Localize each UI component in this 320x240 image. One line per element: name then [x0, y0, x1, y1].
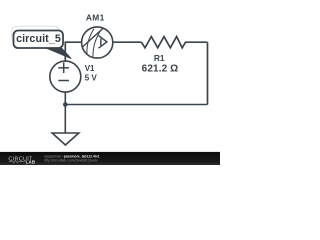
- wire right side down: [207, 42, 209, 104]
- svg-text:5 V: 5 V: [85, 73, 98, 82]
- wire V1 bottom to ground: [64, 92, 66, 133]
- annotation tail: [42, 46, 72, 59]
- annotation circuit_5 bubble: [14, 31, 64, 49]
- svg-text:http://circuitlab.com/c9vw581Q: http://circuitlab.com/c9vw581Qxedv: [44, 158, 98, 162]
- ammeter AM1: [82, 27, 113, 58]
- svg-text:AM1: AM1: [86, 12, 105, 22]
- svg-text:circuit_5: circuit_5: [16, 33, 61, 45]
- svg-text:V1: V1: [85, 64, 95, 73]
- node junction: [63, 102, 68, 107]
- voltage source V1: [50, 61, 81, 92]
- watermark logo LAB: [9, 161, 25, 163]
- wire ammeter to resistor: [112, 41, 141, 43]
- svg-text:621.2 Ω: 621.2 Ω: [142, 64, 179, 75]
- annotation shadow box: [12, 26, 60, 43]
- resistor R1: [142, 37, 208, 48]
- wire V1 top to top rail corner: [65, 42, 81, 61]
- svg-text:R1: R1: [154, 53, 165, 63]
- svg-text:LAB: LAB: [26, 160, 36, 165]
- wire bottom rail: [65, 104, 207, 106]
- ground: [52, 133, 79, 145]
